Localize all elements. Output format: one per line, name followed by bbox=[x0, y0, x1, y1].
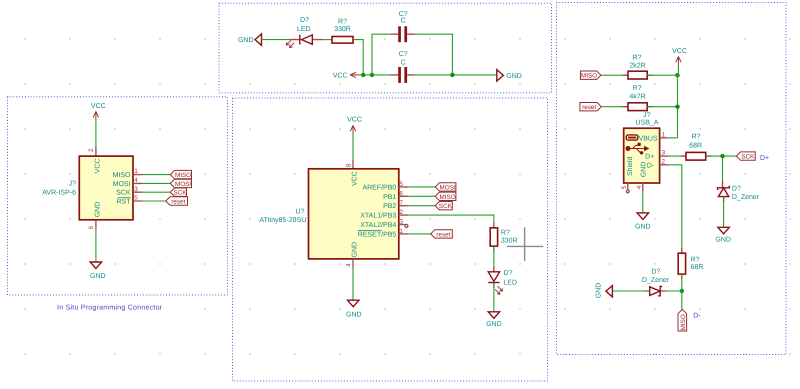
capacitor C2 pin stubs bbox=[391, 74, 415, 76]
wire resistor R6 to D- node bbox=[681, 274, 683, 291]
svg-text:C: C bbox=[401, 59, 406, 66]
wire pin3 to SCK label bbox=[142, 191, 170, 193]
pin 6 stub bottom bbox=[95, 220, 97, 229]
svg-text:VCC: VCC bbox=[672, 48, 687, 55]
svg-text:MOSI: MOSI bbox=[175, 181, 191, 188]
pin 3 stub with no-connect circle bbox=[399, 224, 408, 227]
power VCC bbox=[91, 103, 106, 121]
global label reset bbox=[166, 197, 188, 206]
global label SCK bbox=[170, 188, 187, 197]
svg-text:4k7R: 4k7R bbox=[629, 92, 645, 100]
svg-text:XTAL1/PB3: XTAL1/PB3 bbox=[360, 212, 396, 220]
svg-text:MISO: MISO bbox=[113, 172, 131, 179]
power VCC bbox=[347, 117, 362, 135]
pin name RESET/PB5 with overline bbox=[358, 230, 397, 238]
svg-text:R?: R? bbox=[501, 229, 510, 236]
LED D1 bbox=[286, 35, 312, 48]
resistor R5 68R horizontal bbox=[686, 152, 706, 160]
svg-text:2: 2 bbox=[662, 158, 666, 165]
global label MOSI bbox=[170, 179, 191, 188]
zener diode D3 bbox=[718, 186, 730, 197]
connector J1 AVR-ISP-6 body bbox=[79, 156, 133, 220]
svg-text:GND: GND bbox=[238, 37, 254, 44]
svg-text:SCK: SCK bbox=[174, 190, 188, 197]
pin stubs resistor R2 bbox=[493, 223, 495, 252]
wire LED D2 to GND bbox=[493, 283, 495, 312]
svg-text:R?: R? bbox=[692, 134, 701, 141]
resistor R1 330R bbox=[332, 37, 353, 44]
svg-text:R?: R? bbox=[691, 257, 700, 264]
svg-text:GND: GND bbox=[94, 202, 101, 218]
svg-text:6: 6 bbox=[399, 190, 403, 197]
svg-text:R?: R? bbox=[338, 18, 347, 25]
USB plug icon bbox=[626, 135, 638, 140]
svg-text:2: 2 bbox=[88, 148, 95, 152]
wire resistor R3 to VCC rail bbox=[647, 74, 677, 76]
svg-text:D?: D? bbox=[732, 185, 741, 192]
ground GND (left arrow) bbox=[238, 34, 262, 45]
junction VCC node A bbox=[361, 73, 365, 77]
svg-text:PB2: PB2 bbox=[383, 203, 396, 210]
global label reset (right pointing) bbox=[580, 103, 601, 112]
global label MISO (vertical, up pointing) bbox=[678, 309, 687, 331]
pin stubs LED D2 bbox=[493, 267, 495, 289]
pin stubs resistor R6 bbox=[681, 248, 683, 280]
wire pin1 to MISO label bbox=[142, 174, 170, 176]
svg-text:GND: GND bbox=[596, 283, 603, 299]
svg-text:J?: J? bbox=[643, 112, 651, 119]
wire VCC arrow segment bbox=[359, 74, 372, 76]
cursor crosshair bbox=[507, 227, 543, 261]
wire resistor R2 to LED D2 bbox=[493, 246, 495, 272]
wire pin4 to GND bbox=[352, 268, 354, 300]
svg-text:VCC: VCC bbox=[91, 103, 106, 110]
USB trident icon bbox=[626, 143, 650, 155]
global label SCK bbox=[435, 202, 452, 211]
global label MISO (right pointing) bbox=[580, 71, 601, 80]
junction D- node bbox=[680, 289, 684, 293]
svg-text:R?: R? bbox=[633, 55, 642, 62]
global label SCK (left pointing) bbox=[736, 152, 755, 161]
capacitor C1 pin stubs bbox=[391, 33, 415, 35]
pin stubs resistor R3 bbox=[623, 74, 653, 76]
svg-text:6: 6 bbox=[88, 225, 95, 229]
svg-text:GND: GND bbox=[640, 162, 647, 178]
svg-text:MOSI: MOSI bbox=[113, 181, 131, 188]
wire pin2 D- down to resistor R6 bbox=[668, 165, 682, 253]
svg-text:4: 4 bbox=[134, 177, 138, 184]
pin 2 stub D- bbox=[660, 164, 668, 166]
wire pin4 to GND bbox=[642, 192, 644, 213]
svg-text:3: 3 bbox=[134, 186, 138, 193]
svg-text:J?: J? bbox=[69, 181, 77, 188]
wire D+ node to zener D3 bbox=[722, 156, 724, 186]
junction right cap node bbox=[450, 73, 454, 77]
global label MISO bbox=[170, 170, 191, 179]
wire zener D4 to GND arrow bbox=[612, 290, 649, 292]
svg-text:C?: C? bbox=[399, 51, 408, 58]
IC U1 ATtiny85-20SU body bbox=[309, 169, 399, 259]
svg-text:In Situ Programming Connector: In Situ Programming Connector bbox=[57, 303, 163, 311]
ground GND below USB connector bbox=[635, 213, 651, 231]
svg-text:SCK: SCK bbox=[116, 190, 131, 197]
pin stubs right side bbox=[133, 175, 142, 201]
svg-text:2k2R: 2k2R bbox=[629, 62, 645, 70]
LED D2 bbox=[488, 272, 503, 295]
svg-text:U?: U? bbox=[296, 208, 305, 215]
wire D- node to MISO label bbox=[681, 291, 683, 309]
capacitor C1 bbox=[398, 26, 407, 42]
svg-text:D?: D? bbox=[503, 270, 512, 277]
svg-text:D+: D+ bbox=[760, 155, 769, 162]
connector J2 USB_A body bbox=[624, 128, 660, 183]
wire VCC to pin 8 bbox=[352, 134, 354, 159]
junction VCC node B bbox=[370, 73, 374, 77]
pin 4 stub GND bbox=[642, 183, 644, 192]
svg-text:VCC: VCC bbox=[94, 159, 101, 174]
svg-text:reset: reset bbox=[582, 104, 596, 111]
svg-text:2: 2 bbox=[399, 209, 403, 216]
svg-text:GND: GND bbox=[352, 242, 359, 258]
wire pin1 to reset label bbox=[408, 233, 431, 235]
pin stubs resistor R5 bbox=[681, 155, 711, 157]
ground GND below LED D2 bbox=[486, 312, 502, 328]
wire resistor R5 to SCK label bbox=[706, 155, 737, 157]
svg-text:XTAL2/PB4: XTAL2/PB4 bbox=[360, 221, 396, 229]
resistor R4 4k7R bbox=[628, 103, 647, 111]
wire pin5 to reset label bbox=[142, 200, 165, 202]
svg-text:reset: reset bbox=[436, 231, 450, 238]
pin 1 stub VBUS bbox=[660, 137, 668, 139]
wire reset label to resistor R4 bbox=[601, 106, 628, 108]
svg-text:Shield: Shield bbox=[626, 156, 634, 176]
svg-text:PB1: PB1 bbox=[383, 194, 396, 201]
svg-text:4: 4 bbox=[345, 263, 352, 267]
svg-text:VCC: VCC bbox=[333, 73, 348, 80]
svg-text:330R: 330R bbox=[334, 26, 351, 33]
global label MOSI bbox=[435, 183, 456, 192]
svg-text:D-: D- bbox=[693, 313, 701, 320]
wire MISO label to resistor R3 bbox=[601, 74, 628, 76]
wire VCC rail vertical bbox=[677, 66, 680, 138]
power VCC (left arrow) bbox=[333, 72, 360, 79]
svg-text:MOSI: MOSI bbox=[440, 184, 456, 191]
svg-text:C: C bbox=[401, 18, 406, 25]
svg-text:1: 1 bbox=[134, 168, 138, 175]
pin 2 stub bbox=[95, 147, 97, 156]
svg-text:SCK: SCK bbox=[741, 154, 755, 161]
wire capacitor C2 to GND arrow bbox=[415, 74, 497, 76]
wire GND arrow to LED bbox=[262, 39, 291, 41]
zener diode D4 bbox=[650, 286, 663, 295]
ground GND below IC U1 bbox=[346, 300, 362, 318]
wire pin5 to MOSI label bbox=[408, 186, 435, 188]
svg-text:5: 5 bbox=[399, 181, 403, 188]
power VCC bbox=[672, 48, 687, 66]
pin stubs right side bbox=[399, 187, 408, 234]
svg-text:D?: D? bbox=[300, 17, 309, 24]
svg-text:reset: reset bbox=[171, 199, 185, 206]
pin 3 stub D+ bbox=[660, 155, 668, 157]
svg-text:GND: GND bbox=[486, 321, 502, 328]
global label MISO bbox=[435, 192, 456, 201]
wire zener D3 to GND bbox=[723, 197, 725, 228]
junction D+ node bbox=[720, 154, 724, 158]
pin stubs zener D3 bbox=[723, 181, 724, 202]
wire D- node to zener D4 bbox=[661, 290, 682, 292]
svg-text:LED: LED bbox=[297, 26, 311, 33]
svg-text:D+: D+ bbox=[645, 154, 654, 161]
pin 8 stub bbox=[352, 159, 354, 168]
pin 4 stub bottom bbox=[352, 259, 354, 268]
svg-text:AREF/PB0: AREF/PB0 bbox=[362, 183, 396, 191]
resistor R6 68R vertical bbox=[678, 253, 685, 274]
svg-text:MISO: MISO bbox=[581, 73, 597, 80]
capacitor C2 bbox=[398, 67, 407, 83]
LED D1 pin stubs bbox=[290, 39, 323, 41]
svg-text:68R: 68R bbox=[689, 143, 702, 150]
svg-text:330R: 330R bbox=[501, 238, 518, 245]
svg-text:GND: GND bbox=[506, 73, 522, 80]
svg-text:MISO: MISO bbox=[680, 314, 687, 330]
svg-text:4: 4 bbox=[636, 185, 643, 189]
svg-text:LED: LED bbox=[503, 279, 517, 286]
wire up to capacitor C1 bbox=[372, 34, 391, 75]
ground GND (left arrow) bbox=[596, 283, 613, 299]
pin 5 stub Shield with no-connect circle bbox=[626, 183, 629, 193]
pin stubs resistor R4 bbox=[623, 106, 653, 108]
wire pin1 up to VCC rail bbox=[668, 137, 678, 139]
svg-text:MISO: MISO bbox=[175, 172, 191, 179]
svg-text:1: 1 bbox=[399, 228, 403, 235]
svg-text:MISO: MISO bbox=[440, 194, 456, 201]
pin name RST with overline bbox=[117, 198, 132, 206]
svg-text:SCK: SCK bbox=[439, 203, 453, 210]
svg-text:1: 1 bbox=[662, 131, 666, 138]
ground GND below connector bbox=[90, 262, 106, 280]
svg-text:8: 8 bbox=[345, 163, 352, 167]
svg-text:GND: GND bbox=[346, 311, 362, 318]
svg-text:USB_A: USB_A bbox=[636, 120, 659, 127]
svg-text:3: 3 bbox=[399, 219, 403, 226]
wire resistor R4 to VCC rail bbox=[647, 106, 677, 108]
wire VCC node to capacitor C2 bbox=[372, 74, 391, 76]
svg-text:D_Zener: D_Zener bbox=[732, 194, 760, 201]
wire pin4 to MOSI label bbox=[142, 182, 170, 184]
wire resistor R1 to VCC node bbox=[353, 40, 363, 75]
wire capacitor C1 to right vertical bbox=[415, 34, 453, 75]
svg-text:7: 7 bbox=[399, 200, 403, 207]
wire pin7 to SCK label bbox=[408, 205, 435, 207]
wire VCC to connector pin 2 bbox=[95, 120, 97, 147]
svg-text:RST: RST bbox=[117, 199, 132, 206]
junction VCC rail upper bbox=[675, 73, 679, 77]
svg-text:R?: R? bbox=[633, 85, 642, 92]
svg-text:5: 5 bbox=[621, 185, 628, 189]
svg-text:VBUS: VBUS bbox=[639, 135, 658, 142]
svg-text:RESET/PB5: RESET/PB5 bbox=[358, 230, 397, 238]
svg-text:D?: D? bbox=[651, 269, 660, 276]
wire pin6 to MISO label bbox=[408, 195, 435, 197]
svg-text:AVR-ISP-6: AVR-ISP-6 bbox=[42, 190, 76, 197]
svg-text:GND: GND bbox=[90, 273, 106, 280]
svg-text:VCC: VCC bbox=[352, 171, 359, 186]
resistor R2 330R vertical bbox=[490, 228, 497, 246]
ground GND (right arrow) bbox=[497, 70, 522, 81]
resistor R3 2k2R bbox=[628, 71, 647, 79]
junction VCC rail lower bbox=[675, 105, 679, 109]
svg-text:68R: 68R bbox=[691, 264, 704, 271]
svg-text:3: 3 bbox=[662, 150, 666, 157]
wire pin2 to resistor R2 bbox=[408, 215, 494, 228]
wire pin3 to resistor R5 bbox=[668, 155, 686, 157]
pin stubs zener D4 bbox=[644, 290, 666, 292]
svg-text:GND: GND bbox=[635, 224, 651, 231]
svg-text:D_Zener: D_Zener bbox=[642, 277, 670, 284]
svg-text:5: 5 bbox=[134, 195, 138, 202]
svg-text:ATtiny85-20SU: ATtiny85-20SU bbox=[259, 216, 306, 224]
svg-text:VCC: VCC bbox=[347, 117, 362, 124]
wire LED to resistor R1 bbox=[323, 39, 333, 41]
wire pin6 to GND bbox=[95, 229, 97, 262]
global label reset bbox=[431, 230, 453, 239]
ground GND below zener D3 bbox=[715, 227, 731, 243]
svg-text:D-: D- bbox=[647, 163, 655, 170]
svg-text:GND: GND bbox=[715, 237, 731, 244]
